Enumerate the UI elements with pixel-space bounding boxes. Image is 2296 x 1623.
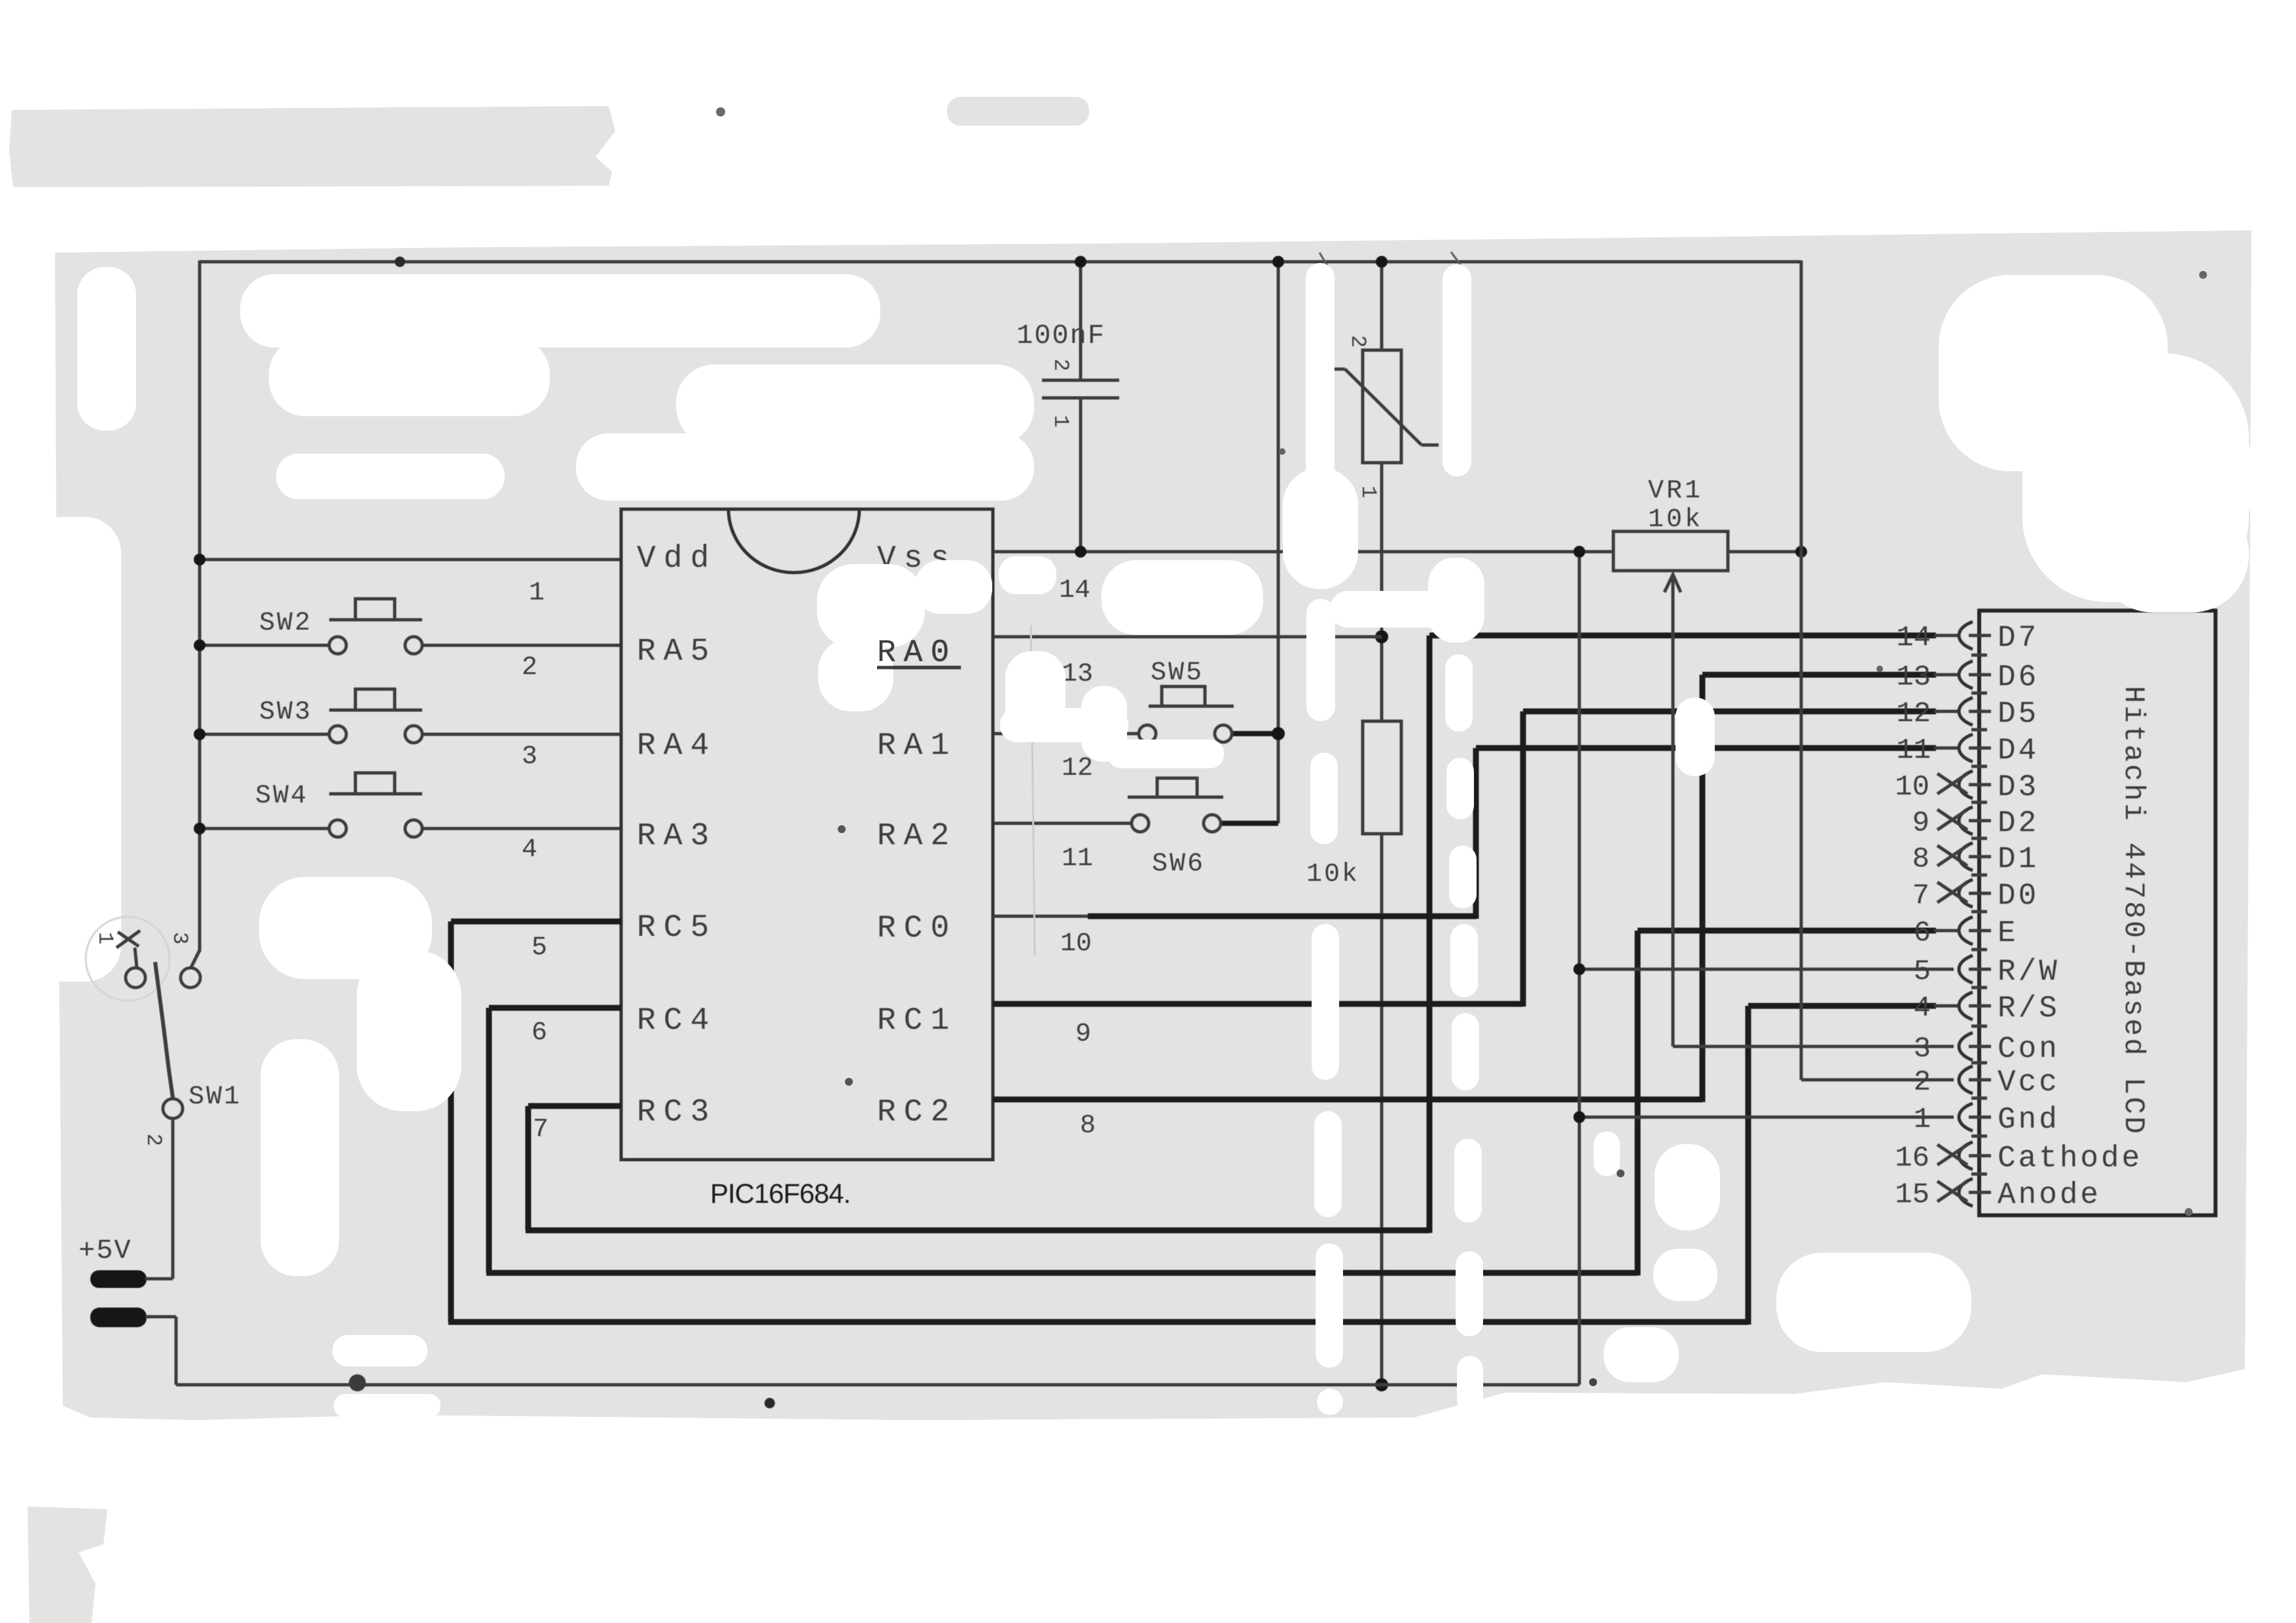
wire bus jog to SW1 <box>190 950 200 969</box>
svg-text:RA3: RA3 <box>637 819 717 854</box>
IC U1 PIC16F684 <box>621 509 993 1160</box>
resistor 10k <box>1363 721 1401 834</box>
svg-text:D2: D2 <box>1998 806 2039 840</box>
wire RC0 to D4 <box>993 915 1092 918</box>
wire RC2 to D6 <box>993 1097 1702 1103</box>
wire +5V rail to Vcc <box>1800 260 1803 1080</box>
svg-text:R/S: R/S <box>1998 991 2060 1026</box>
switch SW4 <box>200 827 329 830</box>
svg-text:2: 2 <box>1346 335 1370 348</box>
svg-text:E: E <box>1998 916 2018 950</box>
svg-text:1: 1 <box>529 579 545 608</box>
node Vdd rail smudge <box>395 257 405 267</box>
LCD pin 12 D5 <box>1969 710 1991 713</box>
svg-text:7: 7 <box>1912 880 1929 912</box>
svg-text:6: 6 <box>531 1018 547 1048</box>
svg-text:5: 5 <box>531 933 547 963</box>
LCD pin 14 D7 <box>1969 634 1991 637</box>
node RA0 divider <box>1375 630 1388 643</box>
LCD pin 15 Anode <box>1969 1191 1991 1194</box>
svg-text:11: 11 <box>1896 734 1931 767</box>
svg-text:RC5: RC5 <box>637 910 717 946</box>
wire ground vertical <box>1578 552 1581 1385</box>
svg-text:14: 14 <box>1059 576 1090 605</box>
LCD pin 6 E <box>1969 929 1991 933</box>
svg-text:6: 6 <box>1914 917 1931 950</box>
LCD pin 8 D1 <box>1969 855 1991 859</box>
svg-text:SW5: SW5 <box>1151 658 1204 688</box>
svg-text:Hitachi 44780-Based LCD: Hitachi 44780-Based LCD <box>2117 686 2149 1136</box>
svg-text:10k: 10k <box>1648 505 1703 535</box>
svg-text:10: 10 <box>1060 929 1092 959</box>
svg-text:9: 9 <box>1912 807 1929 840</box>
svg-text:RC3: RC3 <box>637 1095 717 1130</box>
svg-text:SW6: SW6 <box>1152 849 1205 879</box>
switch SW2 <box>200 644 329 647</box>
svg-text:D6: D6 <box>1998 660 2039 694</box>
wire RC5 to R/S <box>451 919 621 925</box>
svg-text:Cathode: Cathode <box>1998 1141 2142 1175</box>
wire +5V to SW1 <box>145 1277 173 1281</box>
thermistor TH1 <box>1380 262 1384 350</box>
svg-text:15: 15 <box>1895 1179 1929 1211</box>
wire top +5V rail <box>200 260 1801 264</box>
potentiometer VR1 10k <box>1613 531 1728 571</box>
svg-text:5: 5 <box>1914 955 1931 988</box>
wire left supply bus <box>198 260 202 952</box>
switch SW3 <box>200 733 329 736</box>
wire 10k to ground rail <box>1380 834 1384 1385</box>
svg-text:D4: D4 <box>1998 734 2039 768</box>
svg-text:Vdd: Vdd <box>637 541 717 577</box>
wire SW1 to +5V <box>171 1118 175 1279</box>
svg-text:RC2: RC2 <box>877 1095 957 1130</box>
svg-text:Con: Con <box>1998 1032 2060 1066</box>
switch SW6 <box>993 822 1132 825</box>
svg-text:RA1: RA1 <box>877 728 957 764</box>
LCD pin 11 D4 <box>1969 747 1991 750</box>
svg-text:8: 8 <box>1912 843 1929 876</box>
svg-text:RA2: RA2 <box>877 819 957 854</box>
wire RA0 pin13 <box>993 635 1382 639</box>
switch SW1 <box>86 917 170 1001</box>
svg-text:100nF: 100nF <box>1016 320 1105 351</box>
svg-text:+5V: +5V <box>79 1235 132 1266</box>
svg-text:12: 12 <box>1062 754 1093 783</box>
svg-text:RA4: RA4 <box>637 728 717 764</box>
svg-text:D0: D0 <box>1998 879 2039 913</box>
whiteout <box>240 274 880 348</box>
svg-text:13: 13 <box>1896 661 1931 694</box>
wire SW5/SW6 supply vertical <box>1277 262 1280 823</box>
svg-text:2: 2 <box>1049 359 1073 371</box>
LCD pin 3 Con <box>1969 1045 1991 1048</box>
svg-text:R/W: R/W <box>1998 955 2060 989</box>
LCD module Hitachi 44780 <box>1979 611 2215 1215</box>
wire VR1 wiper to Con <box>1664 575 1681 592</box>
LCD pin 1 Gnd <box>1969 1116 1991 1119</box>
svg-text:RA5: RA5 <box>637 634 717 669</box>
LCD pin 16 Cathode <box>1969 1154 1991 1158</box>
LCD pin 2 Vcc <box>1969 1079 1991 1082</box>
svg-text:2: 2 <box>1914 1066 1931 1099</box>
svg-text:3: 3 <box>1914 1033 1931 1065</box>
wire RC4 to E <box>489 1005 621 1011</box>
svg-text:4: 4 <box>1914 992 1931 1025</box>
svg-text:8: 8 <box>1080 1111 1096 1141</box>
svg-text:SW4: SW4 <box>255 781 308 811</box>
svg-text:16: 16 <box>1895 1142 1929 1175</box>
svg-text:1: 1 <box>1049 415 1073 427</box>
svg-text:10k: 10k <box>1306 860 1359 889</box>
svg-text:12: 12 <box>1896 698 1931 730</box>
wire R/W <box>1579 968 1954 971</box>
svg-text:3: 3 <box>168 932 192 944</box>
LCD pin 10 D3 <box>1969 783 1991 787</box>
svg-text:D5: D5 <box>1998 697 2039 731</box>
LCD pin 5 R/W <box>1969 968 1991 971</box>
svg-text:2: 2 <box>141 1133 166 1146</box>
svg-text:13: 13 <box>1062 660 1093 689</box>
wire RC1 to D5 <box>993 1001 1523 1007</box>
wire bottom ground rail <box>176 1383 1579 1387</box>
wire Gnd <box>1579 1116 1954 1119</box>
svg-text:RC0: RC0 <box>877 911 957 946</box>
capacitor 100nF <box>1079 262 1083 380</box>
wire thermistor to node <box>1380 463 1384 721</box>
svg-text:11: 11 <box>1062 844 1093 874</box>
wire Vdd pin1 <box>200 558 621 562</box>
svg-text:SW2: SW2 <box>259 609 312 638</box>
svg-text:D3: D3 <box>1998 770 2039 804</box>
svg-text:D7: D7 <box>1998 621 2039 655</box>
svg-text:RC4: RC4 <box>637 1003 717 1039</box>
LCD pin 9 D2 <box>1969 819 1991 823</box>
svg-text:9: 9 <box>1075 1020 1091 1049</box>
svg-text:Vcc: Vcc <box>1998 1065 2060 1099</box>
svg-text:VR1: VR1 <box>1648 476 1703 506</box>
svg-text:2: 2 <box>522 653 537 683</box>
svg-text:7: 7 <box>533 1115 548 1145</box>
svg-text:4: 4 <box>522 835 537 865</box>
switch SW5 <box>993 732 1139 736</box>
LCD pin 13 D6 <box>1969 673 1991 677</box>
svg-text:RC1: RC1 <box>877 1003 957 1039</box>
svg-text:3: 3 <box>522 742 537 772</box>
svg-text:14: 14 <box>1896 622 1931 654</box>
wire 0V to ground rail <box>145 1315 176 1319</box>
LCD pin 4 R/S <box>1969 1005 1991 1008</box>
svg-text:Gnd: Gnd <box>1998 1103 2060 1137</box>
wire SW1 lever <box>155 962 173 1097</box>
LCD pin 7 D0 <box>1969 892 1991 895</box>
svg-text:Anode: Anode <box>1998 1178 2101 1212</box>
svg-text:PIC16F684.: PIC16F684. <box>710 1178 850 1209</box>
svg-text:SW1: SW1 <box>188 1082 242 1112</box>
svg-text:SW3: SW3 <box>259 698 312 727</box>
svg-text:D1: D1 <box>1998 842 2039 876</box>
wire RC3 to D7 <box>528 1103 621 1109</box>
svg-text:1: 1 <box>1914 1103 1931 1136</box>
svg-text:1: 1 <box>1356 486 1380 498</box>
svg-text:RA0: RA0 <box>877 635 957 671</box>
svg-text:1: 1 <box>93 932 117 944</box>
svg-text:10: 10 <box>1895 771 1929 804</box>
wire Vss pin14 to VR1 <box>993 550 1613 554</box>
